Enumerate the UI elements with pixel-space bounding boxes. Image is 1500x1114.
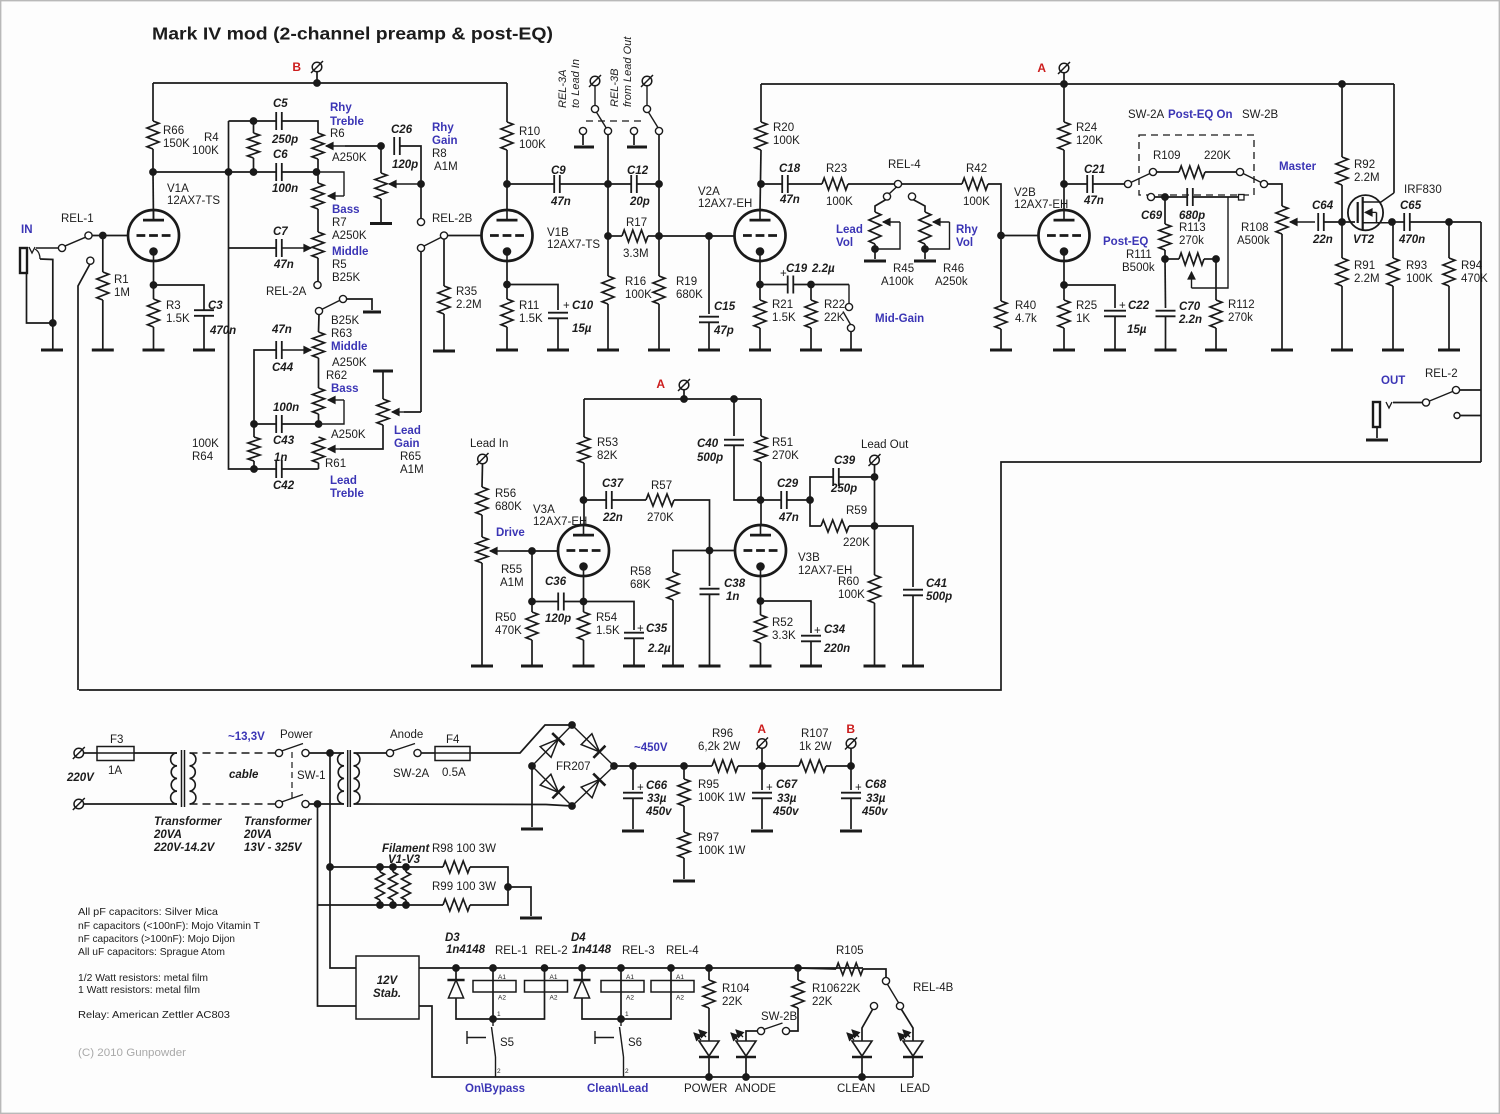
svg-text:C29: C29	[777, 478, 799, 490]
wire R17 drop left	[607, 184, 609, 236]
potentiometer R111	[1179, 253, 1204, 265]
wire R112 top	[1215, 259, 1217, 300]
svg-text:C18: C18	[779, 163, 801, 175]
junction C12 right	[656, 181, 663, 188]
wire R107 to B node	[826, 765, 851, 767]
label R93	[1406, 260, 1433, 285]
svg-text:R108: R108	[1241, 222, 1269, 234]
label Anode	[390, 729, 423, 741]
wire R109 right	[1205, 171, 1236, 173]
svg-text:270K: 270K	[647, 512, 674, 524]
svg-text:C5: C5	[273, 98, 288, 110]
wire grid node to V3B	[710, 550, 736, 552]
svg-text:R42: R42	[966, 163, 987, 175]
wire C43 row right	[282, 423, 319, 425]
svg-text:A250k: A250k	[935, 276, 968, 288]
wire REL-2 top stub	[1460, 389, 1481, 391]
label C18	[779, 163, 801, 206]
wire R46 bottom	[924, 244, 926, 259]
svg-text:2: 2	[625, 1068, 629, 1075]
contact square SW-2B lower	[1239, 195, 1245, 201]
junction R6 bottom node	[313, 169, 320, 176]
diode bridge lower-left	[540, 774, 564, 798]
wire REL-1 bypass contact drop	[78, 264, 90, 690]
wire R91 ground stem	[1341, 286, 1343, 349]
wire heater stubs top	[379, 867, 381, 872]
svg-text:A250K: A250K	[332, 230, 367, 242]
wire R113 bottom	[1164, 250, 1166, 259]
resistor R60	[869, 575, 881, 603]
wire REL-2B to V1B grid	[448, 235, 482, 237]
svg-text:R46: R46	[943, 263, 964, 275]
svg-text:R62: R62	[326, 370, 347, 382]
wire R63 top lead	[318, 315, 321, 333]
wiper arrow R65	[392, 408, 404, 415]
wire R19 top	[658, 236, 660, 276]
label T1	[153, 816, 222, 854]
junction filament row	[327, 864, 334, 871]
label R57	[647, 480, 674, 524]
terminal mains N	[73, 798, 85, 810]
label R113	[1179, 222, 1206, 247]
svg-text:R23: R23	[826, 163, 847, 175]
junction filament heaters t2	[390, 864, 397, 871]
relay coil REL-1	[473, 974, 516, 1002]
node A supply label	[757, 722, 766, 736]
label F3	[108, 734, 123, 777]
svg-text:470n: 470n	[209, 325, 236, 337]
wire MidGain ground stem	[850, 332, 852, 350]
label R111	[1103, 236, 1155, 274]
capacitor C6	[276, 163, 282, 181]
svg-text:R96: R96	[712, 728, 733, 740]
capacitor C35	[624, 633, 644, 639]
wire R64 bottom lead	[253, 461, 255, 469]
resistor R93	[1387, 258, 1399, 286]
svg-text:FR207: FR207	[556, 761, 591, 773]
label R109	[1153, 150, 1231, 162]
resistor R106	[792, 980, 804, 1008]
label 13.3V	[228, 731, 265, 743]
svg-text:F4: F4	[446, 734, 460, 746]
junction C36 tap	[529, 548, 536, 555]
svg-text:R6: R6	[330, 128, 345, 140]
capacitor C19	[788, 276, 794, 294]
wire R45 bottom	[874, 244, 876, 259]
svg-text:22K: 22K	[824, 312, 845, 324]
junction V2A cathode	[757, 281, 764, 288]
junction C40 top	[731, 396, 738, 403]
svg-text:100K: 100K	[519, 139, 546, 151]
wire REL-3B drop	[658, 135, 660, 184]
wire stab top feed	[330, 867, 356, 968]
wire filament bottom row	[318, 904, 444, 906]
svg-text:47n: 47n	[779, 194, 800, 206]
svg-text:C3: C3	[208, 300, 223, 312]
terminal A mid	[678, 379, 690, 391]
resistor R51	[755, 436, 767, 462]
junction R94 node	[1446, 219, 1453, 226]
label R7	[332, 204, 367, 242]
label V3A	[533, 504, 587, 528]
label C41	[926, 578, 952, 603]
capacitor C5	[276, 112, 282, 130]
svg-text:R22: R22	[824, 299, 845, 311]
junction heaters b1	[377, 902, 384, 909]
wire tone stack top	[229, 120, 277, 122]
wire V3A cathode stem	[583, 576, 585, 602]
wire R22 ground stem	[810, 328, 812, 350]
svg-text:R93: R93	[1406, 260, 1427, 272]
label C15	[713, 301, 736, 337]
label Power	[280, 729, 313, 741]
capacitor C34	[801, 636, 821, 642]
ground R97	[673, 880, 695, 883]
relay switch REL-2B	[417, 218, 447, 251]
junction REL1 top	[490, 965, 497, 972]
potentiometer R108	[1276, 206, 1288, 234]
svg-text:470K: 470K	[1461, 273, 1488, 285]
relay switch REL-4B	[870, 977, 903, 1009]
label Mid-Gain	[875, 313, 924, 325]
label C35	[637, 623, 671, 655]
svg-text:A2: A2	[626, 995, 634, 1002]
svg-text:Vol: Vol	[836, 237, 853, 249]
switch SW-2A	[1124, 168, 1156, 187]
svg-text:R106: R106	[812, 983, 840, 995]
junction bridge right	[611, 763, 618, 770]
wire R61 bottom lead	[318, 463, 320, 469]
heater winding V1	[376, 872, 385, 900]
label V2A	[698, 186, 752, 210]
svg-text:R95: R95	[698, 779, 719, 791]
junction C39 R59 left	[807, 497, 814, 504]
svg-text:Bass: Bass	[332, 204, 360, 216]
label C9	[550, 165, 571, 208]
svg-text:VT2: VT2	[1353, 234, 1375, 246]
svg-text:2.2M: 2.2M	[1354, 172, 1380, 184]
wire B supply stub	[850, 749, 852, 767]
svg-text:Rhy: Rhy	[956, 224, 978, 236]
svg-text:470n: 470n	[1398, 234, 1425, 246]
wire filament ground stub	[508, 887, 531, 916]
label C43	[273, 402, 299, 447]
svg-text:Power: Power	[280, 729, 313, 741]
resistor R11	[501, 299, 513, 327]
svg-text:REL-2: REL-2	[535, 945, 568, 957]
svg-text:A500k: A500k	[1237, 235, 1270, 247]
junction bridge top	[569, 722, 576, 729]
label C36	[545, 576, 571, 625]
junction bridge bottom	[569, 803, 576, 810]
wiper arrow R55	[490, 547, 510, 554]
svg-text:A: A	[757, 722, 766, 736]
ground REL-3B	[627, 146, 647, 149]
resistor R113	[1159, 224, 1171, 250]
wire jack ring drop	[40, 259, 53, 323]
svg-text:100K: 100K	[773, 135, 800, 147]
svg-text:to Lead In: to Lead In	[570, 59, 582, 108]
ground REL-3A	[574, 146, 594, 149]
wire REL-2 common to jack	[1393, 402, 1422, 404]
wire R6 bottom lead	[317, 159, 319, 172]
label R64	[192, 438, 219, 463]
svg-text:Clean\Lead: Clean\Lead	[587, 1083, 648, 1095]
wire R5 top lead	[317, 209, 319, 232]
wire REL-2B lead drop	[420, 252, 422, 412]
capacitor C40	[724, 440, 744, 446]
label R92	[1354, 159, 1380, 184]
label R56	[495, 488, 522, 513]
label R53	[597, 437, 618, 462]
wire C36 row	[532, 601, 558, 603]
svg-text:B500k: B500k	[1122, 262, 1155, 274]
wire R56 to R55	[481, 515, 483, 537]
switch SW-1 top	[275, 744, 309, 757]
wire C41 ground stem	[912, 596, 914, 666]
junction R46 bottom	[922, 246, 929, 253]
resistor R40	[995, 301, 1007, 329]
led LEAD	[898, 1030, 923, 1057]
label R23	[826, 163, 853, 208]
svg-text:500p: 500p	[926, 591, 952, 603]
switch SW-2B	[1236, 168, 1267, 187]
svg-text:B: B	[846, 722, 855, 736]
wire R66 to plate node	[152, 149, 154, 172]
junction filament top tap	[327, 750, 334, 757]
node A label	[1037, 61, 1046, 75]
svg-text:nF capacitors (>100nF): Mojo D: nF capacitors (>100nF): Mojo Dijon	[78, 933, 235, 945]
ground C35	[623, 665, 645, 668]
wire V3B cathode stem	[760, 576, 762, 601]
label C66	[637, 780, 672, 818]
relay switch REL-3B	[630, 86, 662, 135]
label C39	[830, 455, 857, 495]
svg-text:A1M: A1M	[500, 577, 524, 589]
svg-text:F3: F3	[110, 734, 123, 746]
wire C39 loop left	[810, 477, 833, 500]
svg-text:REL-3A: REL-3A	[557, 69, 569, 108]
wire heater stubs top2	[392, 867, 394, 872]
svg-text:Lead: Lead	[836, 224, 863, 236]
capacitor C15	[699, 317, 719, 323]
svg-text:250p: 250p	[271, 134, 298, 146]
wire POWER led bottom	[708, 1057, 710, 1077]
wire D4 body	[581, 968, 583, 981]
label Lead Out	[861, 439, 909, 451]
junction heaters b2	[390, 902, 397, 909]
svg-text:R54: R54	[596, 612, 618, 624]
label REL-3B	[609, 36, 634, 107]
label R105	[836, 945, 864, 957]
label R54	[596, 612, 620, 637]
switch S5	[467, 1011, 514, 1077]
svg-text:A2: A2	[676, 995, 684, 1002]
wire mains bottom to T1	[84, 803, 177, 805]
label R112	[1228, 299, 1255, 324]
svg-text:2.2M: 2.2M	[1354, 273, 1380, 285]
svg-text:33µ: 33µ	[647, 793, 667, 805]
capacitor C42	[276, 460, 282, 478]
relay switch REL-2A	[314, 281, 347, 314]
wire CLEAN led bottom	[861, 1057, 863, 1077]
wire T2 bottom to bridge	[354, 804, 573, 806]
diode D4	[574, 980, 591, 998]
wire R54 top lead	[583, 602, 585, 613]
svg-text:+: +	[637, 782, 644, 794]
junction gate node	[1339, 219, 1346, 226]
junction filament heaters t3	[403, 864, 410, 871]
svg-text:C38: C38	[724, 578, 746, 590]
fuse F4	[435, 747, 470, 761]
led CLEAN	[847, 1030, 872, 1057]
svg-text:V3B: V3B	[798, 552, 820, 564]
resistor R3	[148, 299, 160, 327]
wire R91 top	[1341, 222, 1343, 258]
svg-text:R52: R52	[772, 617, 793, 629]
terminal B supply	[845, 738, 857, 750]
svg-text:R98 100 3W: R98 100 3W	[432, 843, 496, 855]
capacitor C43	[276, 415, 282, 433]
wiper arrow R108	[1290, 218, 1315, 225]
svg-text:220V-14.2V: 220V-14.2V	[153, 842, 216, 854]
svg-text:C40: C40	[697, 438, 719, 450]
ground C10	[547, 349, 569, 352]
svg-text:C22: C22	[1128, 300, 1150, 312]
resistor R105	[836, 963, 863, 975]
wire heater stub bottom2	[392, 900, 394, 905]
wire C70 ground stem	[1165, 317, 1167, 351]
junction V3B grid node	[706, 547, 713, 554]
label C3	[208, 300, 236, 337]
label D4	[571, 932, 612, 956]
potentiometer R61	[313, 437, 325, 463]
wire R99 right	[470, 884, 508, 905]
potentiometer R55	[476, 537, 488, 563]
svg-text:+: +	[766, 782, 773, 794]
ground C66	[622, 830, 644, 833]
terminal Lead In	[477, 453, 489, 465]
svg-text:1k 2W: 1k 2W	[799, 741, 832, 753]
mosfet VT2	[1348, 193, 1394, 230]
wire R7 top lead	[317, 172, 319, 183]
wire R112 ground stem	[1215, 328, 1217, 350]
capacitor C39	[833, 468, 839, 486]
label REL-1 coil	[495, 945, 528, 957]
svg-text:Relay: American Zettler AC803: Relay: American Zettler AC803	[78, 1009, 230, 1021]
wire REL-3A ground stub	[582, 135, 584, 145]
label C22	[1119, 300, 1150, 336]
label R61	[325, 458, 364, 500]
resistor R99	[443, 899, 470, 911]
ground R16	[597, 349, 619, 352]
svg-text:2.2M: 2.2M	[456, 299, 482, 311]
terminal mains L	[73, 747, 85, 759]
ground R50	[521, 665, 543, 668]
wire bypass long	[79, 462, 1481, 690]
wire R58 ground stem	[672, 600, 674, 665]
ground C15	[698, 349, 720, 352]
svg-text:D4: D4	[571, 932, 586, 944]
label R63	[331, 315, 367, 369]
svg-text:13V - 325V: 13V - 325V	[244, 842, 303, 854]
wire REL-3B ground stub	[633, 135, 635, 145]
label R3	[166, 300, 190, 325]
svg-text:22K: 22K	[840, 983, 861, 995]
svg-text:470K: 470K	[495, 625, 522, 637]
wire R60 ground stem	[874, 603, 876, 665]
relay switch REL-1	[58, 232, 94, 264]
label REL-3 coil	[622, 945, 655, 957]
svg-text:Rhy: Rhy	[330, 102, 352, 114]
svg-text:R51: R51	[772, 437, 793, 449]
transformer T1	[171, 750, 196, 807]
svg-text:~450V: ~450V	[634, 742, 668, 754]
svg-text:100K: 100K	[625, 289, 652, 301]
wire R24 top	[1063, 84, 1065, 122]
wire R52 top lead	[760, 601, 762, 615]
svg-text:R21: R21	[772, 299, 793, 311]
wire SW1 to T2 bottom	[309, 803, 344, 805]
fuse F3	[97, 747, 134, 761]
triode V2B	[1039, 210, 1090, 261]
wire R11 top lead	[506, 285, 508, 300]
ground C22	[1104, 349, 1126, 352]
wire SW1 to T2 top	[309, 752, 344, 754]
wire C41 run	[875, 526, 914, 587]
potentiometer R65	[377, 399, 389, 425]
wire R4 bottom lead	[253, 158, 255, 172]
label F4	[442, 734, 466, 779]
svg-text:C65: C65	[1400, 200, 1422, 212]
switch SW-1 bottom	[275, 795, 309, 808]
svg-text:R5: R5	[332, 259, 347, 271]
label R59	[843, 505, 870, 549]
wire F4 to bridge	[470, 725, 572, 753]
wire R59 right	[849, 525, 875, 527]
junction D3 top	[453, 965, 460, 972]
label R104	[722, 983, 750, 1008]
wire C43 row	[254, 423, 276, 425]
svg-text:680p: 680p	[1179, 210, 1205, 222]
svg-text:All uF capacitors: Sprague Ato: All uF capacitors: Sprague Atom	[78, 946, 225, 958]
svg-text:REL-3B: REL-3B	[609, 68, 621, 107]
ground R3	[143, 349, 165, 352]
svg-text:120p: 120p	[392, 159, 418, 171]
ground C67	[751, 830, 773, 833]
svg-text:12AX7-EH: 12AX7-EH	[1014, 199, 1068, 211]
svg-text:47n: 47n	[1083, 195, 1104, 207]
svg-text:cable: cable	[229, 769, 259, 781]
label C6	[272, 149, 298, 195]
svg-text:R3: R3	[166, 300, 181, 312]
wire V1B cathode stem	[506, 261, 508, 285]
junction V3A cathode	[580, 598, 587, 605]
svg-text:R4: R4	[204, 132, 219, 144]
wire R95 leads	[683, 766, 685, 779]
capacitor C3	[194, 310, 214, 316]
wire R42 to V2B grid	[988, 184, 1039, 236]
wire R25 top	[1063, 285, 1065, 300]
svg-text:R55: R55	[501, 564, 522, 576]
wire R17 right wire	[648, 235, 659, 237]
input jack IN	[20, 247, 60, 273]
svg-text:S5: S5	[500, 1037, 514, 1049]
terminal A supply	[756, 738, 768, 750]
svg-text:REL-4: REL-4	[888, 159, 921, 171]
svg-text:S6: S6	[628, 1037, 642, 1049]
svg-text:Bass: Bass	[331, 383, 359, 395]
